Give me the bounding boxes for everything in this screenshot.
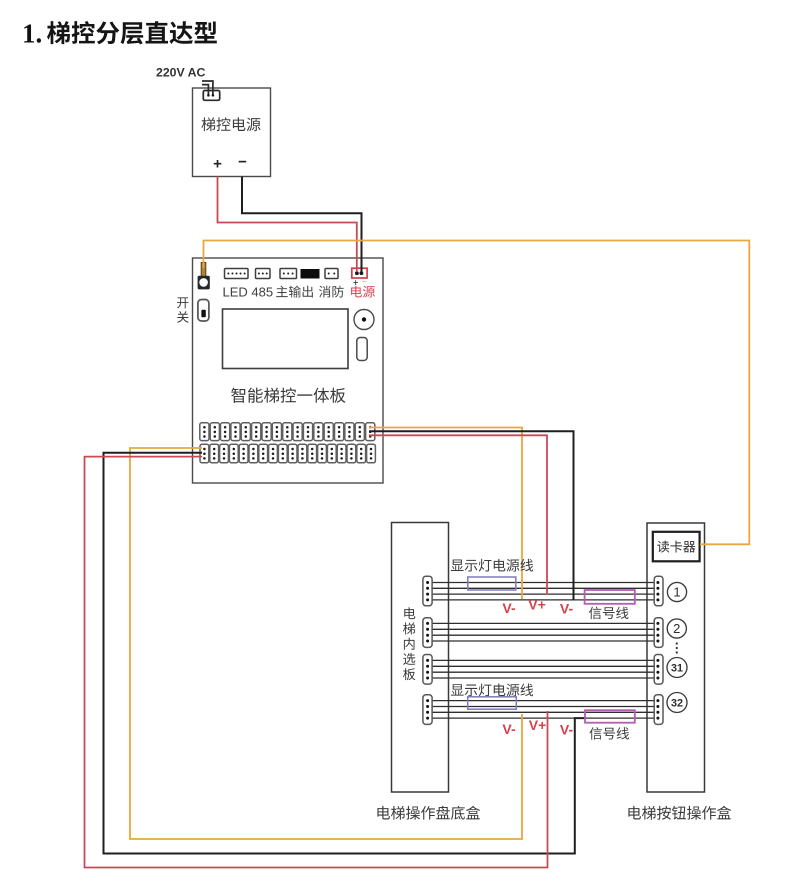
label 信号线 row1 [589, 607, 629, 619]
label 电梯操作盘底盒 [377, 806, 480, 820]
elevator button box 电梯按钮操作盒 [647, 523, 705, 792]
svg-text:LED 485: LED 485 [223, 285, 274, 300]
connector block row 4 (right box) [654, 695, 663, 725]
svg-text:2: 2 [673, 621, 680, 636]
title 1. 梯控分层直达型 [22, 19, 217, 49]
wire red board row2 loop to row4 V+ [85, 457, 548, 868]
LCD display window [223, 309, 349, 369]
silkscreen text LED 485 主输出 消防 [223, 285, 344, 300]
wire black board row2 loop to row4 signal [104, 453, 587, 854]
indicator power rect (blue) row1 [468, 577, 516, 590]
wire bundle row 2 [428, 623, 658, 641]
ellipsis dots [676, 642, 678, 653]
svg-text:V+: V+ [528, 597, 546, 613]
button component [357, 338, 367, 361]
silkscreen text 电源 (red) [351, 286, 375, 298]
vertical text 电梯内选板 [403, 607, 415, 680]
connector J4 消防 (black block) [301, 269, 320, 279]
circled number 31 [667, 658, 687, 678]
svg-text:V+: V+ [529, 717, 547, 733]
wire yellow main loop antenna to card reader [204, 241, 750, 545]
svg-text:1.: 1. [22, 19, 42, 49]
svg-text:V-: V- [502, 600, 516, 616]
connector block row 3 (left box) [423, 655, 432, 685]
buzzer/speaker [354, 310, 374, 330]
svg-text:−: − [238, 154, 247, 171]
antenna pin connector [198, 263, 210, 290]
wire black from power - to board 电源 [242, 177, 362, 273]
label 电梯按钮操作盒 [628, 806, 731, 820]
text 梯控电源 [201, 117, 260, 131]
connector block row 4 (left box) [423, 695, 432, 725]
switch component [198, 300, 209, 322]
connector J5 (2-pin) [325, 269, 338, 279]
elevator panel back-box 电梯操作盘底盒 [392, 523, 449, 793]
wire bundle row 3 [428, 660, 658, 678]
svg-text:V-: V- [560, 722, 574, 738]
power supply box 梯控电源 [193, 88, 271, 177]
svg-text:31: 31 [671, 662, 683, 674]
signal rect (pink) row4 [585, 710, 635, 723]
wire red from power + to board 电源 [218, 177, 357, 273]
connector block row 2 (right box) [654, 618, 663, 648]
wire red board row1 to row1 V+ [369, 435, 547, 594]
connector J2 485 (3-pin) [256, 269, 271, 279]
card reader box 读卡器 [653, 532, 700, 562]
svg-text:1: 1 [673, 585, 680, 600]
connector J6 电源 (red outline, 2 pins) [352, 268, 367, 278]
connector block row 1 (left box) [423, 576, 432, 606]
wire bundle row 1 [428, 583, 658, 600]
signal rect (pink) row1 [585, 590, 635, 604]
svg-text:V-: V- [560, 601, 574, 617]
circled number 1 [667, 582, 686, 601]
label 开关 (switch) [177, 297, 189, 322]
circled number 2 [667, 619, 686, 638]
text 智能梯控一体板 [231, 388, 345, 403]
circled number 32 [667, 693, 687, 713]
wire yellow board row1 to row1 V- [369, 428, 522, 600]
svg-text:220V AC: 220V AC [156, 66, 206, 80]
main board box 智能梯控一体板 [193, 258, 384, 483]
svg-text:+: + [213, 156, 222, 173]
svg-text:32: 32 [671, 697, 683, 709]
svg-text:−: − [362, 278, 367, 287]
wire yellow board row2 loop to row4 V- [130, 448, 522, 839]
label 显示灯电源线 row1 [451, 559, 533, 572]
connector block row 3 (right box) [654, 655, 663, 685]
label 信号线 row4 [589, 727, 629, 739]
terminal block row 2 (18 blocks) [200, 444, 375, 463]
connector J1 LED (5-pin) [225, 269, 249, 279]
indicator power rect (blue) row4 [468, 697, 517, 709]
terminal block row 1 (17 blocks) [200, 423, 375, 441]
wire black board row1 to row1 signal [369, 431, 574, 600]
connector J3 主输出 (3-pin) [280, 269, 297, 279]
svg-text:V-: V- [502, 721, 516, 737]
connector block row 2 (left box) [423, 618, 432, 648]
connector block row 1 (right box) [654, 576, 663, 606]
label 显示灯电源线 row4 [451, 683, 533, 696]
wire bundle row 4 [428, 701, 658, 719]
AC plug connector icon [202, 81, 220, 100]
